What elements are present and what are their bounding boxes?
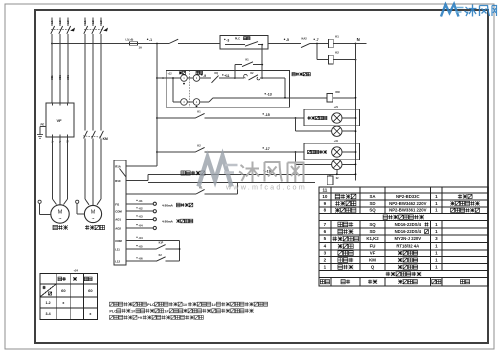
svg-text:KM: KM (369, 257, 376, 262)
indicator lamp HL4 (332, 159, 342, 169)
svg-text:FI1: FI1 (115, 202, 119, 206)
breaker Q1 (3-pole, main motor feed) (51, 18, 53, 27)
BOM parts table grid (319, 187, 488, 286)
svg-text:L1(+0): L1(+0) (126, 38, 134, 42)
svg-text:N: N (357, 37, 360, 42)
button lamp 2 (193, 99, 200, 106)
svg-text:-05: -05 (138, 244, 143, 248)
mfcad blue corner logo (441, 4, 497, 17)
svg-text:x: x (89, 312, 91, 316)
svg-text:-1: -1 (149, 38, 152, 42)
svg-text:AO2: AO2 (115, 226, 121, 230)
local operation box (机旁操作箱) (166, 70, 289, 107)
svg-text:NP2-BD33C: NP2-BD33C (396, 194, 420, 199)
watermark MF logo (199, 156, 238, 187)
wire KM to fan motor (84, 138, 86, 199)
svg-text:10: 10 (322, 194, 328, 199)
svg-text:M: M (58, 209, 63, 215)
wire bus to stop button (156, 77, 158, 79)
fuse FU 1A (130, 42, 138, 46)
svg-text:+11: +11 (224, 74, 229, 78)
svg-text:VF: VF (57, 118, 63, 123)
svg-text:U21: U21 (58, 75, 62, 80)
svg-text:K1,K2: K1,K2 (366, 236, 379, 241)
label 运行 (196, 71, 199, 74)
ground (VFD PE) (37, 135, 43, 139)
svg-text:1A: 1A (139, 45, 142, 49)
svg-text:KM: KM (336, 90, 340, 94)
svg-text:+12: +12 (168, 72, 173, 75)
wire rail VFD running (变频器运行) (148, 173, 356, 175)
N terminal (355, 43, 357, 45)
svg-text:+24: +24 (74, 269, 79, 273)
node -1 (156, 43, 158, 45)
svg-text:VF: VF (370, 250, 376, 255)
svg-text:SA: SA (370, 194, 377, 199)
phase labels L1 L2 L3 group2 (83, 20, 87, 24)
wire COM row (126, 240, 180, 242)
wire common return bus (179, 241, 181, 262)
contactor coil KM (327, 94, 333, 102)
svg-text:RT18/32 4A: RT18/32 4A (396, 244, 419, 249)
svg-text:-06: -06 (138, 257, 143, 261)
svg-text:NP2-BW3462 220V: NP2-BW3462 220V (389, 201, 426, 206)
pushbutton SD stop (illuminated) (181, 75, 188, 82)
svg-text:-17: -17 (265, 147, 270, 151)
svg-text:AO1: AO1 (115, 218, 121, 222)
contact K1 holding (242, 62, 253, 67)
svg-text:x: x (62, 301, 64, 305)
node control tap on L1 (51, 43, 53, 45)
node -7 (316, 43, 318, 45)
svg-text:ND16-22DS/4: ND16-22DS/4 (395, 229, 422, 234)
contactor KM main contacts (84, 131, 88, 139)
svg-text:NP2-BW3361 220V: NP2-BW3361 220V (389, 208, 426, 213)
label 机旁操作箱 (292, 73, 295, 76)
svg-text:-02: -02 (138, 207, 143, 211)
wire N bus down right side (355, 44, 357, 181)
svg-text:-01: -01 (138, 199, 143, 203)
wire rail -15 (156, 117, 158, 119)
svg-text:R1A: R1A (115, 164, 121, 168)
svg-text:SD: SD (370, 201, 376, 206)
contact inside PLC box (245, 42, 258, 47)
svg-text:K2: K2 (335, 51, 339, 55)
svg-text:60: 60 (61, 288, 66, 293)
wire -13 out to coil KM (213, 97, 327, 99)
timed contact K2 lower branch (235, 77, 244, 79)
svg-text:PLC: PLC (147, 303, 155, 307)
wire group1 phase labels (50, 75, 54, 80)
svg-text:4-20mA: 4-20mA (162, 219, 174, 223)
svg-text:-15: -15 (265, 113, 270, 117)
wire group2 phases down (84, 34, 86, 131)
svg-text:1-2: 1-2 (45, 301, 50, 305)
svg-text:-13: -13 (267, 93, 272, 97)
VFD relay contact R1A/R1C (126, 165, 157, 167)
breaker Q2 (3-pole, fan feed) (84, 18, 86, 27)
label 停止 (179, 71, 182, 74)
contact SQ (212, 76, 219, 83)
svg-text:K1: K1 (335, 35, 339, 39)
wire control rail L1 tap (52, 43, 130, 45)
lamp 4 bottom connection (336, 170, 338, 175)
wire join to output (262, 77, 285, 79)
svg-text:COM: COM (115, 239, 122, 243)
indicator lamp HL3 red (332, 147, 342, 157)
button lamp 1 (181, 99, 188, 106)
local lamp box 1 (运行指示) (304, 109, 360, 126)
breaker Q2 linkage and trip arrow (84, 29, 104, 31)
VFD (variable frequency drive) box VF (46, 103, 74, 137)
svg-text:PLC: PLC (235, 36, 240, 40)
label 变频器运行 (181, 171, 185, 175)
holding branch up (234, 65, 236, 78)
svg-text:-9: -9 (203, 74, 206, 78)
wire group1 phases down to VFD (51, 34, 53, 103)
svg-text:+31: +31 (334, 140, 339, 143)
motor M2 cooling fan (84, 205, 101, 222)
svg-text:K1P: K1P (159, 242, 164, 245)
wire VFD output to main motor (52, 137, 54, 199)
PLC remote selector box (PLC远程) (220, 36, 268, 49)
wire L12 row with contact K2 (126, 260, 156, 262)
wire rail -17 (156, 151, 158, 153)
svg-text:+9: +9 (138, 316, 142, 320)
phase labels L1 L2 L3 group1 (50, 20, 54, 24)
svg-text:-04: -04 (138, 236, 143, 240)
svg-text:www.mfcad.com: www.mfcad.com (225, 182, 307, 191)
wire rail after PLC box (268, 43, 301, 45)
wire split to lamp 2 (295, 117, 297, 119)
VFD output terminal labels (51, 141, 54, 143)
analog signal wires with test terminals (126, 203, 153, 205)
label 散热风机 (85, 225, 89, 229)
contact KA2 (301, 43, 310, 47)
indicator lamp HL2 (332, 126, 342, 136)
watermark 沐风网 characters (239, 165, 245, 181)
svg-text:KM: KM (103, 137, 108, 141)
svg-text:+21: +21 (334, 106, 339, 109)
ground motor M1 (38, 200, 41, 203)
svg-text:-04: -04 (138, 223, 143, 227)
svg-text:MY2N-J 220V: MY2N-J 220V (394, 236, 421, 241)
svg-text:ND16-22DS/4: ND16-22DS/4 (395, 222, 422, 227)
wire R1C to run rail (126, 180, 148, 182)
contact K1 (run indication) (195, 113, 204, 118)
terminal strip box (VFD control terminals) (114, 160, 126, 265)
svg-text:~: ~ (59, 217, 62, 223)
svg-text:11: 11 (323, 187, 328, 192)
lamp branch inside local box (172, 78, 174, 102)
svg-text:KQ: KQ (215, 73, 219, 75)
wire left control bus (156, 44, 158, 167)
local lamp box 2 (停止指示) (304, 143, 360, 160)
svg-text:60: 60 (88, 288, 93, 293)
wire to node -1 (138, 43, 170, 45)
svg-text:COM: COM (115, 210, 122, 214)
svg-text:PE: PE (41, 122, 45, 126)
relay coil K2 (329, 55, 334, 64)
breaker Q1 linkage and trip arrow (51, 29, 71, 31)
wire PLC box drop to local join (261, 49, 263, 65)
svg-text:SD: SD (370, 229, 376, 234)
KM linkage (83, 136, 102, 137)
wire L11 row with contact K1 (126, 248, 156, 250)
branch to coil K2 (316, 44, 318, 60)
svg-text:-5: -5 (286, 38, 289, 42)
svg-text:FU: FU (370, 244, 376, 249)
wire split to lamp 4 (295, 151, 297, 153)
svg-text:U11: U11 (50, 75, 54, 80)
svg-text:3-4: 3-4 (45, 312, 50, 316)
wire rail KB feedback (126, 193, 196, 195)
svg-text:PLC: PLC (109, 309, 117, 313)
svg-text:SQ: SQ (369, 222, 376, 227)
pushbutton SQ start (illuminated) (193, 75, 200, 82)
svg-text:SQ: SQ (369, 208, 376, 213)
relay coil K1 (329, 39, 334, 48)
label 主电机 (53, 225, 57, 229)
svg-text:-7: -7 (316, 38, 319, 42)
svg-text:KA2: KA2 (302, 37, 308, 41)
motor M1 main motor (51, 205, 69, 223)
svg-text:4-20mA: 4-20mA (162, 203, 174, 207)
lamp wires to N bus (342, 117, 356, 119)
ground motor M2 (76, 200, 79, 203)
installation notes (3 lines) (109, 302, 113, 306)
indicator lamp HL1 green (332, 113, 342, 123)
relay coil KB (329, 174, 331, 176)
svg-text:L11: L11 (115, 247, 120, 251)
svg-text:R1C: R1C (115, 179, 121, 183)
contact K2 (stop indication) (195, 147, 204, 152)
switch SA contact a (169, 39, 178, 43)
svg-text:L12: L12 (115, 260, 120, 264)
svg-text:~: ~ (92, 217, 95, 222)
lamp wires to N bus (342, 151, 356, 153)
svg-text:-03: -03 (138, 215, 143, 219)
terminal cross-reference mini table (40, 274, 97, 320)
svg-text:U31: U31 (66, 75, 70, 80)
contact KB (196, 189, 205, 194)
svg-text:-3: -3 (226, 38, 229, 42)
svg-text:M: M (91, 209, 95, 215)
